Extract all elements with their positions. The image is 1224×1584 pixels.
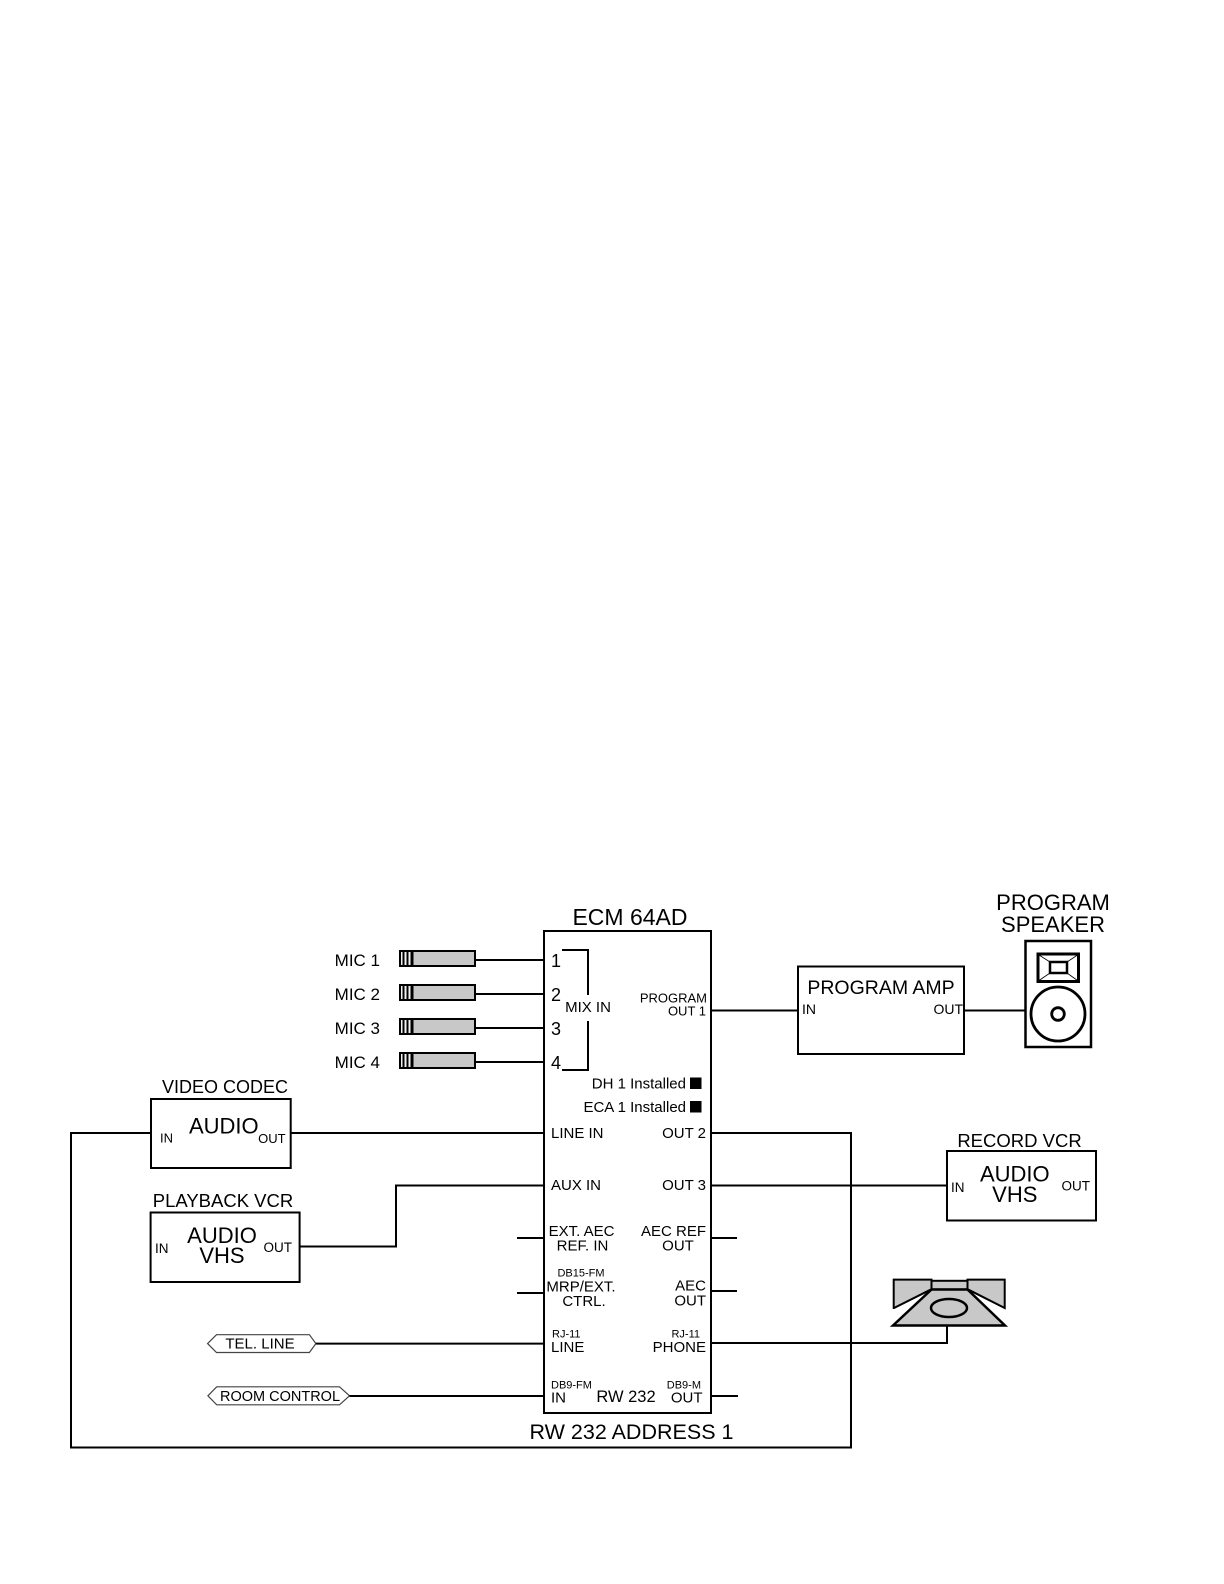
pin 3 xyxy=(551,1019,561,1039)
mic connector MIC 4 xyxy=(400,1053,475,1068)
svg-text:2: 2 xyxy=(551,985,561,1005)
svg-text:LINE IN: LINE IN xyxy=(551,1125,604,1142)
title ECM 64AD xyxy=(572,904,687,930)
stub DB9-M OUT xyxy=(711,1395,738,1397)
mic label MIC 3 xyxy=(335,1019,380,1038)
port OUT 3 xyxy=(662,1177,706,1194)
svg-text:4: 4 xyxy=(551,1053,561,1073)
port RJ-11 LINE xyxy=(551,1329,584,1357)
wire phone to RJ-11 PHONE xyxy=(711,1326,947,1344)
svg-text:RW 232 ADDRESS 1: RW 232 ADDRESS 1 xyxy=(530,1420,734,1444)
svg-text:VHS: VHS xyxy=(199,1243,244,1268)
svg-text:VIDEO CODEC: VIDEO CODEC xyxy=(162,1077,288,1097)
svg-text:MIX IN: MIX IN xyxy=(565,999,611,1016)
wire MIC 1 to pin 1 xyxy=(475,959,544,961)
svg-text:MIC 2: MIC 2 xyxy=(335,985,380,1004)
svg-text:ECM 64AD: ECM 64AD xyxy=(572,904,687,930)
svg-text:IN: IN xyxy=(951,1180,965,1195)
svg-text:OUT: OUT xyxy=(258,1131,286,1146)
MIX IN bracket xyxy=(562,950,588,1070)
svg-text:OUT 1: OUT 1 xyxy=(668,1004,706,1019)
svg-text:OUT: OUT xyxy=(264,1240,293,1255)
flag ROOM CONTROL xyxy=(208,1387,350,1405)
port RJ-11 PHONE xyxy=(653,1329,706,1357)
mic label MIC 2 xyxy=(335,985,380,1004)
stub MRP/EXT CTRL xyxy=(517,1292,544,1294)
svg-text:MIC 3: MIC 3 xyxy=(335,1019,380,1038)
label RW 232 ADDRESS 1 xyxy=(530,1420,734,1444)
svg-text:DH 1 Installed: DH 1 Installed xyxy=(592,1076,686,1093)
stub AEC REF OUT xyxy=(711,1237,737,1239)
speaker cabinet xyxy=(1026,941,1092,1047)
ECA 1 Installed indicator xyxy=(583,1099,701,1116)
svg-text:PROGRAM AMP: PROGRAM AMP xyxy=(807,977,954,999)
svg-text:MIC 4: MIC 4 xyxy=(335,1053,380,1072)
mic connector MIC 1 xyxy=(400,951,475,966)
port LINE IN xyxy=(551,1125,604,1142)
mic label MIC 4 xyxy=(335,1053,380,1072)
port DB9-M OUT xyxy=(667,1380,703,1407)
wire MIC 3 to pin 3 xyxy=(475,1027,544,1029)
wire PROGRAM OUT 1 to amp IN xyxy=(711,1010,798,1012)
svg-text:IN: IN xyxy=(155,1241,169,1256)
label RW 232 xyxy=(596,1388,655,1406)
wire amp OUT to speaker xyxy=(964,1010,1026,1012)
box RECORD VCR xyxy=(947,1130,1096,1221)
wire playback vcr OUT to AUX IN xyxy=(300,1186,544,1247)
svg-text:RW 232: RW 232 xyxy=(596,1388,655,1406)
svg-text:SPEAKER: SPEAKER xyxy=(1001,912,1105,937)
telephone icon xyxy=(893,1280,1005,1326)
svg-text:3: 3 xyxy=(551,1019,561,1039)
svg-text:ROOM CONTROL: ROOM CONTROL xyxy=(220,1389,340,1405)
svg-text:IN: IN xyxy=(551,1390,566,1407)
svg-text:OUT: OUT xyxy=(1062,1179,1091,1194)
stub EXT AEC REF IN xyxy=(517,1237,544,1239)
port DB15-FM MRP/EXT. CTRL. xyxy=(546,1268,615,1311)
port PROGRAM OUT 1 xyxy=(640,991,707,1019)
svg-text:OUT: OUT xyxy=(674,1293,706,1310)
svg-text:OUT: OUT xyxy=(933,1001,963,1017)
svg-text:OUT 2: OUT 2 xyxy=(662,1125,706,1142)
svg-text:OUT: OUT xyxy=(662,1238,694,1255)
flag TEL. LINE xyxy=(208,1335,316,1353)
pin 4 xyxy=(551,1053,561,1073)
box VIDEO CODEC xyxy=(151,1077,291,1168)
wire MIC 2 to pin 2 xyxy=(475,993,544,995)
port DB9-FM IN xyxy=(551,1380,592,1407)
svg-text:OUT 3: OUT 3 xyxy=(662,1177,706,1194)
svg-text:OUT: OUT xyxy=(671,1390,703,1407)
tweeter xyxy=(1038,954,1079,982)
svg-text:IN: IN xyxy=(160,1131,173,1146)
wire OUT 3 to record vcr IN xyxy=(711,1185,947,1187)
port AEC OUT xyxy=(674,1278,706,1310)
stub AEC OUT xyxy=(711,1290,737,1292)
svg-text:TEL. LINE: TEL. LINE xyxy=(225,1336,294,1353)
main unit ECM 64AD box xyxy=(544,931,711,1413)
mic connector MIC 2 xyxy=(400,985,475,1000)
woofer xyxy=(1031,987,1085,1041)
label PROGRAM SPEAKER xyxy=(996,890,1110,937)
port AUX IN xyxy=(551,1177,601,1194)
svg-text:PHONE: PHONE xyxy=(653,1339,706,1356)
svg-text:ECA 1 Installed: ECA 1 Installed xyxy=(583,1099,686,1116)
svg-text:PLAYBACK VCR: PLAYBACK VCR xyxy=(153,1190,294,1211)
svg-text:AUX IN: AUX IN xyxy=(551,1177,601,1194)
svg-text:VHS: VHS xyxy=(992,1182,1037,1207)
label MIX IN xyxy=(565,999,611,1016)
wire tel line to RJ-11 LINE xyxy=(316,1343,544,1345)
wire video codec OUT to LINE IN xyxy=(291,1132,544,1134)
port OUT 2 xyxy=(662,1125,706,1142)
amplifier PROGRAM AMP xyxy=(798,967,964,1055)
mic label MIC 1 xyxy=(335,951,380,970)
mic connector MIC 3 xyxy=(400,1019,475,1034)
box PLAYBACK VCR xyxy=(151,1190,300,1282)
svg-text:LINE: LINE xyxy=(551,1339,584,1356)
port AEC REF OUT xyxy=(641,1223,706,1255)
wire OUT 2 loop to video codec IN xyxy=(71,1133,851,1448)
svg-text:1: 1 xyxy=(551,951,561,971)
wire room control to DB9-FM IN xyxy=(350,1395,545,1397)
port EXT. AEC REF. IN xyxy=(549,1223,615,1255)
svg-text:REF. IN: REF. IN xyxy=(557,1238,609,1255)
wire MIC 4 to pin 4 xyxy=(475,1061,544,1063)
svg-text:IN: IN xyxy=(802,1001,816,1017)
DH 1 Installed indicator xyxy=(592,1076,702,1093)
svg-text:RECORD VCR: RECORD VCR xyxy=(957,1130,1081,1151)
svg-text:AUDIO: AUDIO xyxy=(189,1114,259,1139)
pin 2 xyxy=(551,985,561,1005)
svg-text:CTRL.: CTRL. xyxy=(562,1293,605,1310)
pin 1 xyxy=(551,951,561,971)
svg-text:MIC 1: MIC 1 xyxy=(335,951,380,970)
